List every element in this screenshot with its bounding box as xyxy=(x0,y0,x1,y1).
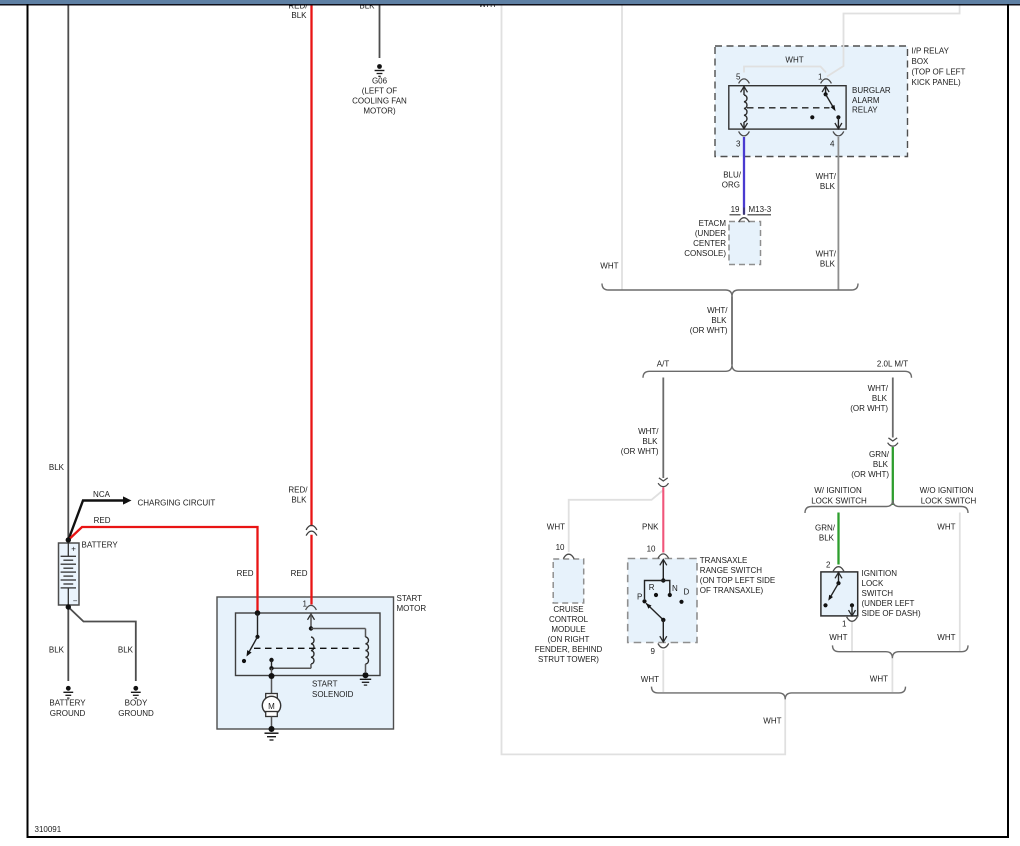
svg-text:RELAY: RELAY xyxy=(852,106,878,115)
svg-text:BATTERY: BATTERY xyxy=(82,541,119,550)
svg-text:SIDE OF DASH): SIDE OF DASH) xyxy=(862,609,921,618)
ignition switch internals xyxy=(835,573,842,579)
relay coil with arrows xyxy=(741,87,748,93)
svg-text:WHT: WHT xyxy=(641,675,659,684)
svg-text:BLK: BLK xyxy=(49,463,65,472)
wire WHT from top right to relay pin 1 xyxy=(827,5,960,77)
pin 19 ETACM arc xyxy=(739,218,750,223)
wire GRN/BLK (OR WHT) xyxy=(892,447,894,505)
svg-text:1: 1 xyxy=(303,600,308,609)
svg-text:BLK: BLK xyxy=(291,11,307,20)
start solenoid switch arm with arrowhead xyxy=(248,637,258,655)
svg-text:COOLING FAN: COOLING FAN xyxy=(352,97,407,106)
wire WHT combined ignition branch xyxy=(891,658,893,692)
svg-text:WHT: WHT xyxy=(870,675,888,684)
ground start motor case xyxy=(269,726,275,732)
brace merge ignition WHT + W/O WHT xyxy=(833,645,969,658)
svg-text:WHT: WHT xyxy=(937,633,955,642)
solenoid pull-in coil xyxy=(311,637,314,664)
page bottom border xyxy=(27,836,1010,838)
svg-text:MOTOR): MOTOR) xyxy=(363,107,396,116)
page left border xyxy=(27,4,29,838)
start solenoid switch: junction node xyxy=(255,610,261,616)
cruise control module box (dashed) xyxy=(553,559,584,603)
svg-text:10: 10 xyxy=(556,543,565,552)
relay switch arm xyxy=(822,86,829,92)
wire WHT loop relay pin 5 to pin 1 xyxy=(744,67,826,73)
svg-text:WHT: WHT xyxy=(763,717,781,726)
svg-text:(LEFT OF: (LEFT OF xyxy=(362,87,398,96)
svg-text:SWITCH: SWITCH xyxy=(862,589,894,598)
svg-text:CHARGING CIRCUIT: CHARGING CIRCUIT xyxy=(138,499,216,508)
wire BLU/ORG relay pin 3 to ETACM pin 19 xyxy=(743,137,745,215)
svg-text:W/ IGNITION: W/ IGNITION xyxy=(814,486,862,495)
svg-text:MODULE: MODULE xyxy=(551,625,585,634)
wire WHT second vertical to merge brace xyxy=(621,5,623,290)
svg-text:(UNDER LEFT: (UNDER LEFT xyxy=(862,599,915,608)
svg-text:(OR WHT): (OR WHT) xyxy=(690,326,728,335)
svg-text:WHT/: WHT/ xyxy=(868,384,889,393)
ground G06 symbol xyxy=(377,64,382,69)
start solenoid inner box xyxy=(236,613,381,676)
svg-text:WHT: WHT xyxy=(937,523,955,532)
contact R node xyxy=(654,593,658,597)
svg-text:1: 1 xyxy=(842,620,847,629)
svg-text:CONTROL: CONTROL xyxy=(549,615,589,624)
battery B1 body xyxy=(59,543,80,605)
connector in-line A/T branch xyxy=(659,478,668,481)
solenoid hold-in coil xyxy=(366,637,369,664)
wire WHT W/O ignition branch xyxy=(959,513,961,652)
brace merge WHT + WHT/BLK xyxy=(602,284,858,297)
pin 10 cruise arc xyxy=(563,554,574,559)
svg-text:−: − xyxy=(73,597,78,606)
svg-text:A/T: A/T xyxy=(657,360,670,369)
svg-text:2: 2 xyxy=(826,561,831,570)
wire BLK to ground G06 xyxy=(379,5,381,58)
pin 5 relay arc xyxy=(739,79,750,84)
connector in-line M/T branch xyxy=(888,438,897,441)
wire to hold-in coil inside solenoid xyxy=(311,628,366,630)
solenoid plunger dashed link xyxy=(254,647,363,649)
svg-text:START: START xyxy=(312,680,338,689)
svg-text:WHT/: WHT/ xyxy=(816,172,837,181)
svg-text:BLK: BLK xyxy=(642,437,658,446)
svg-text:NCA: NCA xyxy=(93,490,111,499)
wire WHT from transaxle pin 9 xyxy=(662,650,664,692)
svg-text:RED/: RED/ xyxy=(288,486,308,495)
svg-text:G06: G06 xyxy=(372,77,388,86)
svg-text:LOCK: LOCK xyxy=(862,579,884,588)
wire contact to motor M xyxy=(271,668,273,693)
pin 1 start motor arc xyxy=(306,605,317,610)
svg-text:BLK: BLK xyxy=(118,646,134,655)
svg-text:ORG: ORG xyxy=(722,181,740,190)
svg-text:BLK: BLK xyxy=(820,260,836,269)
svg-text:WHT: WHT xyxy=(600,262,618,271)
svg-text:M: M xyxy=(268,702,275,711)
svg-text:ETACM: ETACM xyxy=(699,219,727,228)
svg-text:CENTER: CENTER xyxy=(693,239,726,248)
brace merge transaxle WHT + ignition WHT xyxy=(652,687,906,700)
svg-text:WHT/: WHT/ xyxy=(638,427,659,436)
svg-text:W/O IGNITION: W/O IGNITION xyxy=(920,486,974,495)
svg-text:MOTOR: MOTOR xyxy=(397,604,427,613)
svg-text:SOLENOID: SOLENOID xyxy=(312,690,354,699)
svg-text:ALARM: ALARM xyxy=(852,96,880,105)
ground BATTERY GROUND symbol xyxy=(66,686,71,691)
motor M symbol xyxy=(266,694,278,699)
brace split W/ vs W/O ignition lock switch xyxy=(805,500,968,513)
svg-text:OF TRANSAXLE): OF TRANSAXLE) xyxy=(700,586,764,595)
I/P relay box (dashed) xyxy=(715,46,908,157)
wire BLK battery positive feed xyxy=(67,5,69,540)
ground BODY GROUND symbol xyxy=(133,686,138,691)
wire BLK to body ground xyxy=(68,607,136,681)
node battery positive junction xyxy=(66,537,71,542)
svg-text:GRN/: GRN/ xyxy=(815,524,836,533)
transaxle switch internals: common arrow xyxy=(660,560,667,566)
wire WHT/BLK relay pin 4 down to merge brace xyxy=(837,137,839,290)
svg-text:CRUISE: CRUISE xyxy=(553,605,583,614)
svg-text:1: 1 xyxy=(818,73,823,82)
svg-text:START: START xyxy=(397,594,423,603)
svg-text:R: R xyxy=(649,583,655,592)
svg-text:WHT: WHT xyxy=(547,523,565,532)
svg-text:10: 10 xyxy=(647,545,656,554)
svg-text:(UNDER: (UNDER xyxy=(695,229,726,238)
svg-text:LOCK SWITCH: LOCK SWITCH xyxy=(921,497,977,506)
svg-text:BLK: BLK xyxy=(873,460,889,469)
contact D node xyxy=(679,600,683,604)
wire RED/BLK lower segment to pin 1 xyxy=(310,535,312,605)
svg-text:(ON RIGHT: (ON RIGHT xyxy=(548,635,590,644)
svg-text:+: + xyxy=(71,545,76,554)
svg-text:BOX: BOX xyxy=(912,57,930,66)
wire PNK to transaxle pin 10 xyxy=(662,488,664,553)
svg-text:WHT/: WHT/ xyxy=(707,306,728,315)
svg-text:RED: RED xyxy=(237,569,254,578)
svg-text:FENDER, BEHIND: FENDER, BEHIND xyxy=(535,645,603,654)
wire WHT/BLK M/T branch xyxy=(892,378,894,438)
transaxle range switch box (dashed) xyxy=(628,559,697,643)
svg-text:WHT: WHT xyxy=(785,56,803,65)
svg-text:I/P RELAY: I/P RELAY xyxy=(912,47,950,56)
svg-text:STRUT TOWER): STRUT TOWER) xyxy=(538,655,599,664)
wire GRN/BLK to ignition pin 2 xyxy=(837,513,839,565)
wire WHT/BLK A/T branch xyxy=(662,378,664,479)
burglar alarm relay U1 box xyxy=(729,86,846,129)
transaxle switch arm toward P xyxy=(646,603,663,620)
svg-text:5: 5 xyxy=(736,73,741,82)
solenoid contact stub nodes xyxy=(269,658,273,662)
svg-text:BLK: BLK xyxy=(819,534,835,543)
svg-text:RANGE SWITCH: RANGE SWITCH xyxy=(700,566,762,575)
pin 1 ignition arc xyxy=(847,617,858,622)
wire NCA charging circuit arrow xyxy=(68,501,123,541)
svg-text:GROUND: GROUND xyxy=(50,709,86,718)
svg-text:GROUND: GROUND xyxy=(118,709,154,718)
svg-text:(OR WHT): (OR WHT) xyxy=(621,447,659,456)
svg-text:BLK: BLK xyxy=(49,646,65,655)
svg-text:4: 4 xyxy=(830,140,835,149)
contact N node xyxy=(668,593,672,597)
svg-text:TRANSAXLE: TRANSAXLE xyxy=(700,556,748,565)
ignition lock switch box xyxy=(821,572,858,616)
svg-text:(ON TOP LEFT SIDE: (ON TOP LEFT SIDE xyxy=(700,576,775,585)
start solenoid feed arrow from pin 1 xyxy=(308,614,315,620)
svg-text:WHT/: WHT/ xyxy=(816,250,837,259)
svg-text:PNK: PNK xyxy=(642,523,659,532)
svg-text:IGNITION: IGNITION xyxy=(862,569,898,578)
svg-text:BLK: BLK xyxy=(711,316,727,325)
pin 2 ignition arc xyxy=(833,567,844,572)
wire RED/BLK upper segment xyxy=(310,5,312,526)
start motor box xyxy=(217,597,394,729)
brace split A/T vs M/T xyxy=(643,365,912,378)
svg-text:GRN/: GRN/ xyxy=(869,450,890,459)
ground hold-in coil inside start motor xyxy=(363,672,369,678)
relay plunger dashed link xyxy=(747,107,830,109)
svg-text:N: N xyxy=(672,584,678,593)
svg-text:P: P xyxy=(637,593,642,602)
svg-text:LOCK SWITCH: LOCK SWITCH xyxy=(811,497,867,506)
svg-text:9: 9 xyxy=(651,647,656,656)
connector pin 19 / M13-3 tick and underline xyxy=(743,208,745,216)
svg-text:BATTERY: BATTERY xyxy=(49,699,86,708)
svg-text:BURGLAR: BURGLAR xyxy=(852,86,891,95)
svg-text:BLK: BLK xyxy=(872,394,888,403)
svg-text:(OR WHT): (OR WHT) xyxy=(851,470,889,479)
svg-text:KICK PANEL): KICK PANEL) xyxy=(912,78,962,87)
svg-text:BLU/: BLU/ xyxy=(723,171,742,180)
wire WHT/BLK (OR WHT) combined xyxy=(731,297,733,365)
contact P node xyxy=(642,599,646,603)
page right border xyxy=(1007,4,1009,838)
pin 1 relay arc xyxy=(821,79,832,84)
svg-text:BLK: BLK xyxy=(291,496,307,505)
wire BLK to battery ground xyxy=(67,607,69,681)
pin 3 relay arc xyxy=(739,131,750,136)
wire WHT branch to cruise control pin 10 xyxy=(569,490,664,552)
svg-text:WHT: WHT xyxy=(829,633,847,642)
pin 9 transaxle arc xyxy=(658,643,669,648)
svg-text:(OR WHT): (OR WHT) xyxy=(850,404,888,413)
start solenoid switch contact node xyxy=(242,659,246,663)
wire WHT from ignition pin 1 xyxy=(851,622,853,652)
svg-text:RED: RED xyxy=(94,516,111,525)
svg-text:2.0L M/T: 2.0L M/T xyxy=(877,360,908,369)
svg-text:RED: RED xyxy=(291,569,308,578)
ignition switch output contact xyxy=(850,603,854,607)
wire RED battery to start motor xyxy=(68,527,257,613)
ETACM module box (dashed) xyxy=(729,222,761,265)
svg-text:3: 3 xyxy=(736,140,741,149)
connector in-line on RED/BLK wire xyxy=(306,525,317,530)
battery internal plates xyxy=(67,543,69,556)
relay switch alternate contact node xyxy=(810,115,814,119)
pin 10 transaxle arc xyxy=(658,554,669,559)
wire WHT main return loop xyxy=(502,5,786,754)
svg-text:BLK: BLK xyxy=(820,182,836,191)
svg-text:BODY: BODY xyxy=(125,699,148,708)
svg-text:310091: 310091 xyxy=(35,825,62,834)
svg-text:M13-3: M13-3 xyxy=(749,205,772,214)
svg-text:CONSOLE): CONSOLE) xyxy=(684,249,726,258)
svg-text:(TOP OF LEFT: (TOP OF LEFT xyxy=(912,68,966,77)
node battery negative junction xyxy=(66,604,71,609)
svg-text:D: D xyxy=(684,588,690,597)
svg-text:19: 19 xyxy=(731,205,740,214)
page top blue bar xyxy=(0,0,1020,4)
pin 4 relay arc xyxy=(833,131,844,136)
